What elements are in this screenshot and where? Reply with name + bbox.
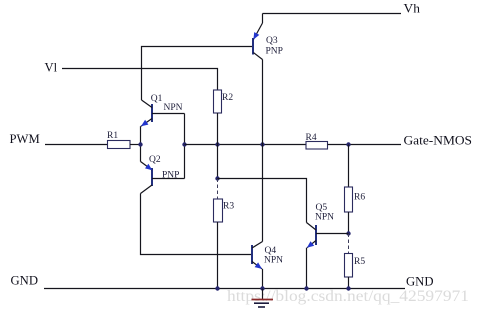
- wire R4 to Gate-NMOS: [328, 144, 402, 146]
- wire Q5 base feed: [218, 179, 307, 223]
- wire Q3 emitter stub: [262, 14, 264, 24]
- resistor R5: [345, 254, 366, 278]
- wire base rail vertical: [184, 114, 186, 179]
- wire Q1 collector up to Q3 base: [142, 47, 253, 101]
- transistor Q3: [253, 23, 283, 60]
- wire PWM: [45, 144, 107, 146]
- wire R1 to node A: [130, 144, 141, 146]
- wire R6 bottom to Q5 base node: [348, 212, 350, 234]
- svg-text:R1: R1: [107, 131, 118, 141]
- wire output rail to R4: [263, 144, 307, 146]
- svg-text:PNP: PNP: [266, 47, 283, 57]
- svg-text:Q2: Q2: [149, 155, 161, 165]
- transistor Q5: [307, 203, 335, 248]
- wire junction to R3: [217, 179, 219, 200]
- svg-text:Q1: Q1: [151, 94, 163, 104]
- wire R3 bottom to GND: [217, 222, 219, 288]
- wire Vh top rail: [263, 13, 402, 15]
- resistor R6: [345, 187, 366, 212]
- svg-text:Q3: Q3: [266, 36, 278, 46]
- wire Q2 collector to Q4 base: [141, 194, 252, 255]
- wire node A to Q2 emitter: [140, 145, 142, 162]
- svg-text:R6: R6: [354, 193, 365, 203]
- resistor R2: [214, 90, 234, 113]
- svg-text:R5: R5: [354, 257, 365, 267]
- wire Q1 base to base rail: [152, 113, 185, 115]
- wire R2 bottom to rail: [217, 113, 219, 145]
- wire Q5 emitter to GND: [306, 248, 308, 289]
- node main vertical junction: [260, 142, 264, 146]
- svg-text:Gate-NMOS: Gate-NMOS: [404, 133, 473, 148]
- svg-text:NPN: NPN: [264, 256, 283, 266]
- resistor R1: [107, 131, 130, 149]
- node base rail junction: [182, 142, 186, 146]
- svg-text:GND: GND: [406, 274, 434, 289]
- wire GND rail: [44, 288, 405, 290]
- wire Q2 base to base rail: [152, 178, 185, 180]
- node R5 GND junction: [346, 286, 350, 290]
- transistor Q1: [141, 94, 183, 126]
- transistor Q4: [252, 242, 283, 269]
- svg-text:R3: R3: [223, 202, 234, 212]
- svg-text:Vl: Vl: [45, 60, 58, 75]
- node Q5 base junction: [346, 231, 350, 235]
- svg-text:NPN: NPN: [315, 213, 334, 223]
- ground: [252, 289, 274, 308]
- node R2 bottom junction: [215, 142, 219, 146]
- svg-text:R2: R2: [222, 93, 233, 103]
- svg-text:R4: R4: [306, 133, 317, 143]
- wire node A to Q1 emitter: [140, 126, 142, 144]
- svg-text:Q5: Q5: [316, 203, 328, 213]
- node Q5 GND junction: [304, 286, 308, 290]
- wire Q5 base to node: [316, 233, 349, 235]
- resistor R3: [214, 199, 235, 222]
- wire output rail left segment: [185, 144, 263, 146]
- wire R5 bottom to GND: [348, 277, 350, 289]
- wire junction to R6: [348, 145, 350, 188]
- svg-text:PWM: PWM: [10, 131, 41, 146]
- svg-text:Q4: Q4: [265, 246, 277, 256]
- node Q4 GND junction: [260, 286, 264, 290]
- transistor Q2: [141, 155, 180, 194]
- node R6 top junction: [346, 142, 350, 146]
- wire junction to R5: [348, 234, 350, 254]
- wire main vertical: [262, 60, 264, 242]
- resistor R4: [306, 133, 328, 149]
- svg-text:Vh: Vh: [404, 1, 421, 16]
- wire rail to R3 node: [217, 145, 219, 179]
- node R3 GND junction: [215, 286, 219, 290]
- node R3 top junction: [215, 176, 219, 180]
- node A junction: [138, 142, 142, 146]
- svg-text:GND: GND: [11, 273, 39, 288]
- wire Vl: [62, 69, 218, 91]
- svg-text:NPN: NPN: [164, 103, 183, 113]
- wire Q4 emitter to GND: [262, 269, 264, 289]
